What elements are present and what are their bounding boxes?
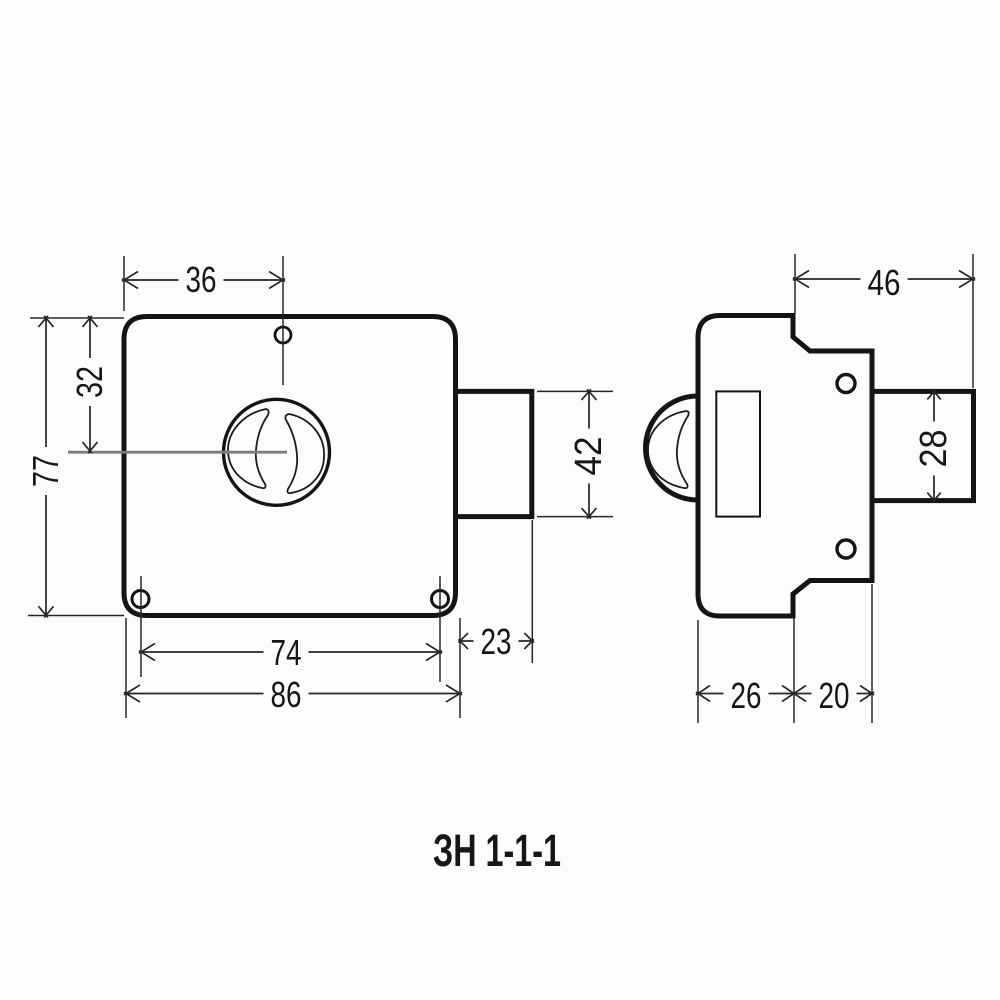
dim 86 right arrow bbox=[446, 685, 462, 702]
latch bolt (side view) bbox=[872, 391, 974, 500]
dim 23 line bbox=[460, 640, 532, 642]
svg-text:42: 42 bbox=[568, 437, 610, 476]
dim 77 label bbox=[29, 447, 63, 495]
dim 46 right extension line bbox=[972, 254, 974, 388]
cylinder bump (side view) bbox=[646, 396, 698, 500]
dim 36 left arrow bbox=[122, 272, 138, 289]
dim 86 right extension line bbox=[459, 618, 461, 718]
dim 26 left extension line bbox=[697, 620, 699, 723]
dim 86 left arrow bbox=[124, 685, 140, 702]
dim 86 left extension line bbox=[125, 618, 127, 718]
top screw hole (front view) bbox=[275, 327, 291, 343]
svg-text:74: 74 bbox=[271, 632, 302, 673]
svg-text:32: 32 bbox=[69, 366, 110, 398]
dim 77 line bbox=[45, 318, 47, 615]
dim 26 line bbox=[698, 693, 794, 695]
dim 36 right arrow bbox=[269, 272, 285, 289]
dim 77 bottom arrow bbox=[39, 606, 54, 617]
lock body (front view) bbox=[124, 317, 456, 616]
dim 23 right arrow bbox=[524, 633, 534, 649]
svg-text:26: 26 bbox=[731, 675, 762, 716]
svg-text:ЗН 1-1-1: ЗН 1-1-1 bbox=[433, 825, 561, 876]
dim 86 label bbox=[264, 678, 309, 714]
svg-text:20: 20 bbox=[819, 675, 850, 716]
dim 74 left arrow bbox=[139, 644, 155, 661]
svg-text:46: 46 bbox=[868, 262, 901, 303]
top screw hole (side view) bbox=[837, 375, 855, 393]
svg-text:23: 23 bbox=[481, 621, 512, 662]
bottom screw hole (side view) bbox=[837, 540, 855, 558]
dim 36 line bbox=[124, 279, 283, 281]
dim 86 line bbox=[126, 693, 460, 695]
svg-text:36: 36 bbox=[186, 259, 217, 300]
svg-text:77: 77 bbox=[25, 455, 66, 487]
dim 26 left arrow bbox=[696, 686, 710, 702]
dim 20 right extension line bbox=[871, 584, 873, 723]
knob right wing bbox=[285, 414, 324, 493]
dim 77 bottom extension line bbox=[28, 615, 124, 617]
dim 28 top arrow bbox=[927, 389, 940, 399]
svg-text:86: 86 bbox=[271, 674, 302, 715]
lock body (side view) bbox=[698, 316, 872, 617]
dim 46 label bbox=[861, 266, 908, 302]
dim 20 left arrow bbox=[792, 686, 806, 702]
dim 46 left extension line bbox=[794, 254, 796, 313]
dim 20 label bbox=[812, 679, 857, 715]
dim 42 line bbox=[588, 391, 590, 516]
bump crescent bbox=[648, 411, 689, 488]
dim 42 label bbox=[572, 429, 606, 484]
dim 77 top arrow bbox=[39, 316, 54, 327]
knob left wing bbox=[228, 409, 269, 488]
dim 32 line bbox=[89, 318, 91, 451]
dim 42 top arrow bbox=[582, 389, 597, 400]
dim 23 label bbox=[474, 625, 519, 661]
dim 74 label bbox=[264, 636, 309, 672]
dim 26 label bbox=[724, 679, 769, 715]
dim 26 right arrow bbox=[782, 686, 796, 702]
dim 23 left arrow bbox=[458, 633, 468, 649]
svg-text:28: 28 bbox=[913, 430, 955, 468]
dim 74 left extension line bbox=[140, 576, 142, 677]
dim 74 right extension line bbox=[439, 576, 441, 682]
dim 42 top extension line bbox=[537, 390, 613, 392]
dim 23 right extension line bbox=[531, 520, 533, 663]
dim 42 bottom extension line bbox=[537, 516, 613, 518]
dim 74 right arrow bbox=[426, 644, 442, 661]
dim 20 line bbox=[794, 693, 872, 695]
horizontal centerline through knob bbox=[68, 451, 287, 454]
dim 36 label bbox=[179, 263, 224, 299]
dim 28 line bbox=[933, 391, 935, 500]
dim 32 bottom arrow bbox=[83, 442, 98, 453]
thumb-turn knob circle (front view) bbox=[224, 399, 330, 505]
dim 20 right arrow bbox=[860, 686, 874, 702]
dim 46 line bbox=[795, 278, 973, 280]
dim 46 left arrow bbox=[793, 271, 809, 288]
dim 46 right arrow bbox=[959, 271, 975, 288]
dim 28 bottom arrow bbox=[927, 493, 940, 503]
dim 28 label bbox=[917, 422, 951, 476]
dim 36 right extension line through hole bbox=[282, 256, 284, 385]
dim 42 bottom arrow bbox=[582, 508, 597, 519]
dim 26-20 middle extension line bbox=[793, 618, 795, 723]
dim 32 top arrow bbox=[83, 316, 98, 327]
keyhole plate (side view) bbox=[716, 391, 760, 516]
bottom-right screw hole (front view) bbox=[432, 591, 449, 608]
dim 32 label bbox=[73, 358, 107, 406]
dim 74 line bbox=[141, 651, 440, 653]
latch bolt (front view) bbox=[456, 391, 532, 516]
dim 36 left extension line bbox=[123, 256, 125, 311]
dim 77-32 top extension line bbox=[30, 317, 124, 319]
bottom-left screw hole (front view) bbox=[132, 591, 149, 608]
